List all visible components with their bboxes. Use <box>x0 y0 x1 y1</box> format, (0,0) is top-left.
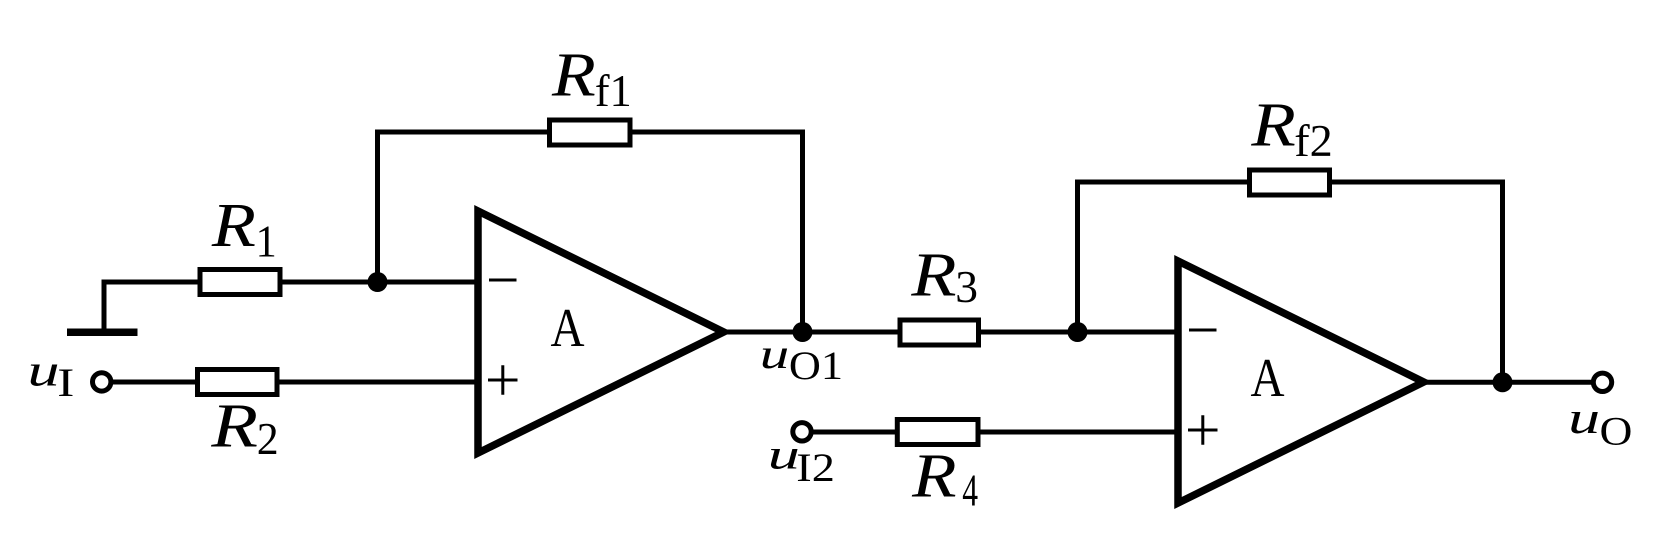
wire R1 to inverting input node of U1 <box>281 280 480 285</box>
wire U1 output to R3 (node uO1) <box>726 330 900 335</box>
wire feedback Rf1 left: node A up and across <box>378 132 550 284</box>
resistor Rf2 <box>1250 170 1330 195</box>
svg-text:1: 1 <box>256 216 277 267</box>
wire uI2 terminal to R4 <box>811 430 899 435</box>
ground <box>67 329 138 337</box>
svg-text:u: u <box>1568 393 1600 444</box>
svg-text:R: R <box>910 239 956 309</box>
svg-text:f1: f1 <box>595 66 632 117</box>
svg-text:I: I <box>57 360 74 404</box>
svg-text:R: R <box>210 391 258 460</box>
svg-text:u: u <box>760 331 790 378</box>
junction node B (inverting input U2) <box>1068 322 1088 342</box>
svg-text:A: A <box>551 298 585 359</box>
resistor R1 <box>200 270 280 295</box>
wire feedback Rf2 right: across and down to output <box>1330 182 1503 384</box>
terminal uO <box>1593 373 1611 391</box>
svg-text:4: 4 <box>962 465 978 516</box>
op-amp U1 minus sign <box>489 279 517 282</box>
svg-text:R: R <box>911 440 957 510</box>
resistor R4 <box>897 420 978 445</box>
terminal uI2 <box>793 423 811 441</box>
junction node A (inverting input U1) <box>368 272 388 292</box>
wire feedback Rf2 left: node B up and across <box>1078 182 1250 334</box>
op-amp U1 <box>478 211 724 453</box>
svg-text:f2: f2 <box>1294 116 1333 166</box>
resistor Rf1 <box>550 120 631 145</box>
wire U2 output to uO terminal <box>1426 380 1593 385</box>
wire ground lead to R1 left <box>104 282 199 329</box>
wire R2 to noninverting input of U1 <box>278 380 480 385</box>
resistor R2 <box>198 370 278 395</box>
svg-text:3: 3 <box>955 261 978 312</box>
svg-text:I2: I2 <box>796 446 835 490</box>
op-amp U2 <box>1178 261 1424 503</box>
op-amp U1 plus sign <box>488 365 518 395</box>
op-amp U2 plus sign <box>1188 415 1218 445</box>
svg-text:u: u <box>28 345 60 396</box>
svg-text:A: A <box>1251 348 1285 409</box>
op-amp U2 minus sign <box>1189 329 1217 332</box>
svg-text:u: u <box>768 431 800 477</box>
svg-text:R: R <box>551 39 596 109</box>
wire R3 to inverting input node of U2 <box>979 330 1180 335</box>
wire uI terminal to R2 <box>111 380 199 385</box>
svg-text:R: R <box>211 190 256 260</box>
junction node uO <box>1493 372 1513 392</box>
junction node uO1 <box>793 322 813 342</box>
terminal uI <box>93 373 111 391</box>
svg-text:O1: O1 <box>789 344 843 389</box>
svg-text:O: O <box>1600 410 1633 454</box>
wire R4 to noninverting input of U2 <box>979 430 1180 435</box>
svg-text:2: 2 <box>257 413 279 464</box>
resistor R3 <box>900 320 979 345</box>
wire feedback Rf1 right: across and down to output <box>630 132 803 334</box>
svg-text:R: R <box>1250 89 1296 159</box>
